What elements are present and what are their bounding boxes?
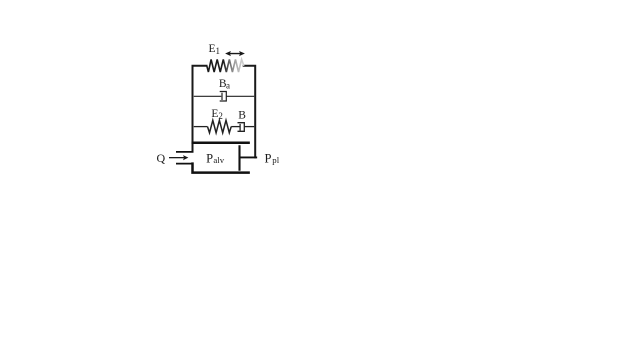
svg-text:a: a xyxy=(226,81,230,91)
svg-text:1: 1 xyxy=(216,46,221,56)
svg-text:2: 2 xyxy=(218,111,223,121)
svg-text:P: P xyxy=(206,152,213,166)
svg-text:E: E xyxy=(209,43,216,55)
svg-text:E: E xyxy=(211,108,218,120)
svg-text:Q: Q xyxy=(157,151,166,165)
svg-text:alv: alv xyxy=(213,155,224,165)
svg-text:B: B xyxy=(238,110,246,122)
svg-text:pl: pl xyxy=(272,155,279,165)
svg-text:P: P xyxy=(265,151,272,165)
